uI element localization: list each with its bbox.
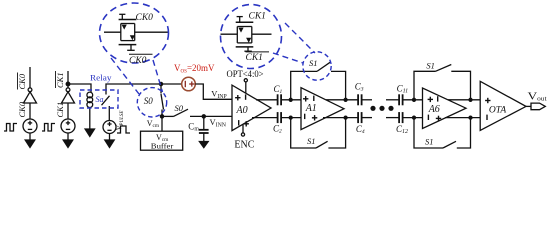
svg-text:VINP: VINP bbox=[211, 89, 226, 100]
svg-text:VPULSE: VPULSE bbox=[115, 111, 126, 131]
svg-text:ENC: ENC bbox=[234, 140, 254, 151]
svg-text:Sa: Sa bbox=[96, 95, 104, 104]
svg-text:Vcm: Vcm bbox=[147, 119, 160, 129]
svg-text:C3: C3 bbox=[355, 81, 364, 92]
svg-text:OPT<4:0>: OPT<4:0> bbox=[227, 69, 264, 79]
svg-text:C4: C4 bbox=[356, 124, 365, 135]
svg-text:CK1: CK1 bbox=[249, 12, 266, 22]
svg-text:CK0: CK0 bbox=[17, 101, 27, 117]
svg-text:A0: A0 bbox=[236, 105, 248, 116]
svg-text:S1: S1 bbox=[307, 136, 316, 146]
svg-text:Buffer: Buffer bbox=[151, 141, 174, 150]
svg-text:VOS=20mV: VOS=20mV bbox=[174, 64, 215, 74]
svg-text:CK1: CK1 bbox=[55, 102, 65, 118]
svg-text:S0: S0 bbox=[144, 96, 154, 106]
svg-text:OTA: OTA bbox=[489, 106, 506, 116]
svg-text:C1: C1 bbox=[274, 84, 283, 95]
svg-text:C12: C12 bbox=[396, 124, 408, 135]
svg-text:CK1: CK1 bbox=[246, 53, 263, 63]
svg-text:Relay: Relay bbox=[90, 73, 112, 83]
svg-text:CK0: CK0 bbox=[17, 73, 27, 89]
svg-text:C2: C2 bbox=[273, 124, 282, 135]
svg-text:Cm: Cm bbox=[188, 121, 199, 132]
svg-text:S1: S1 bbox=[309, 58, 318, 68]
svg-text:CK0: CK0 bbox=[136, 13, 154, 23]
svg-text:CK1: CK1 bbox=[55, 72, 65, 88]
svg-text:VINN: VINN bbox=[210, 117, 227, 128]
svg-text:CK0: CK0 bbox=[129, 56, 147, 66]
svg-text:A6: A6 bbox=[428, 104, 440, 115]
svg-text:A1: A1 bbox=[305, 103, 317, 114]
svg-text:S0: S0 bbox=[175, 103, 184, 113]
svg-text:Vout: Vout bbox=[528, 90, 547, 102]
svg-text:S1: S1 bbox=[425, 137, 434, 147]
svg-text:C11: C11 bbox=[397, 84, 409, 95]
svg-text:S1: S1 bbox=[426, 60, 435, 70]
